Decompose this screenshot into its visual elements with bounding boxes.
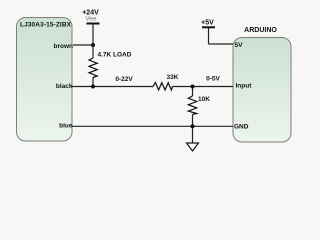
svg-text:0-22V: 0-22V (115, 76, 133, 83)
svg-text:+5V: +5V (201, 19, 214, 26)
svg-text:brown: brown (54, 43, 74, 50)
svg-text:0-5V: 0-5V (206, 76, 220, 83)
svg-text:Input: Input (236, 82, 253, 89)
svg-text:33K: 33K (167, 74, 179, 81)
svg-text:black: black (56, 83, 73, 90)
svg-text:4.7K LOAD: 4.7K LOAD (98, 51, 132, 58)
svg-text:GND: GND (234, 123, 249, 130)
svg-text:ARDUINO: ARDUINO (244, 27, 277, 34)
svg-text:10K: 10K (198, 96, 210, 103)
svg-text:Vee: Vee (85, 15, 97, 22)
svg-text:LJ30A3-15-ZIBX: LJ30A3-15-ZIBX (20, 22, 72, 29)
svg-text:5V: 5V (235, 42, 244, 49)
svg-text:blue: blue (59, 122, 73, 129)
